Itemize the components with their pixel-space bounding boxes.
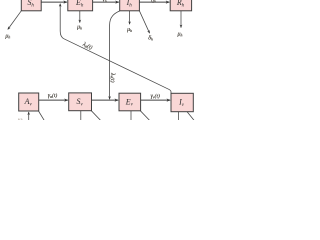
- death wire below I_v: [178, 112, 180, 121]
- death wire below S_v: [80, 111, 82, 121]
- compartment E_v: [119, 93, 141, 111]
- disease death arrow delta_h from I_h: [139, 11, 149, 33]
- death arrow mu_h from I_h: [129, 11, 131, 24]
- wire A_v to S_v: [39, 99, 68, 101]
- svg-text:λh(t): λh(t): [81, 40, 94, 51]
- wire diagonal below S_v: [91, 111, 100, 121]
- wire lambda_h curve from I_v to S_h-E_h arrow: [60, 4, 171, 94]
- svg-text:λv(t): λv(t): [109, 72, 116, 83]
- wire E_h to I_h: [93, 1, 119, 3]
- wire I_h to R_h: [139, 1, 169, 3]
- compartment I_v: [171, 93, 193, 111]
- svg-text:δh: δh: [148, 36, 153, 42]
- wire diagonal below E_v: [140, 111, 149, 121]
- svg-text:νh: νh: [102, 0, 107, 3]
- svg-text:ηh: ηh: [151, 0, 156, 3]
- wire diagonal below A_v: [39, 111, 45, 121]
- svg-text:μh: μh: [178, 32, 183, 38]
- death arrow mu_h from S_h: [8, 11, 21, 30]
- compartment R_h: [170, 0, 191, 11]
- death arrow mu_h from R_h: [180, 11, 182, 28]
- death arrow mu_h from E_h: [79, 11, 81, 23]
- compartment A_v: [19, 93, 39, 111]
- compartment S_v: [69, 93, 92, 111]
- wire diagonal below I_v: [187, 112, 194, 121]
- wire E_v to I_v: [141, 99, 171, 101]
- compartment S_h: [21, 0, 41, 11]
- wire S_h to E_h: [41, 1, 67, 3]
- death wire below E_v: [130, 111, 132, 121]
- compartment E_h: [68, 0, 93, 11]
- svg-text:μh: μh: [5, 34, 10, 40]
- oviposition arrow into A_v bottom: [28, 112, 30, 121]
- svg-text:γa(t): γa(t): [48, 92, 58, 99]
- svg-text:μA: μA: [18, 117, 24, 120]
- svg-text:γv(t): γv(t): [151, 93, 160, 100]
- compartment I_h: [120, 0, 140, 11]
- svg-text:μh: μh: [77, 24, 82, 30]
- svg-text:μh: μh: [127, 27, 132, 33]
- wire S_v to E_v: [92, 99, 119, 101]
- wire lambda_v curve from I_h to S_v-E_v arrow: [110, 11, 120, 99]
